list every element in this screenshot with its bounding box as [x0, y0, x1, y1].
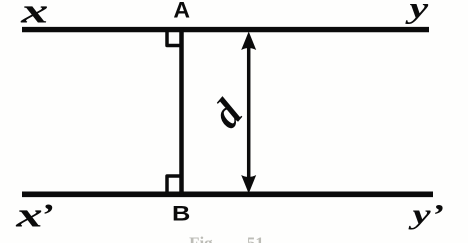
svg-text:y: y: [408, 198, 431, 230]
svg-text:51.: 51.: [247, 234, 268, 243]
svg-text:’: ’: [40, 197, 53, 231]
svg-text:Fig.: Fig.: [189, 234, 217, 243]
svg-text:d: d: [202, 91, 251, 137]
svg-text:x: x: [20, 0, 48, 30]
svg-text:B: B: [172, 201, 190, 225]
svg-text:’: ’: [431, 198, 444, 232]
line x'y' (bottom parallel line): [22, 191, 433, 197]
svg-text:A: A: [173, 0, 190, 22]
right angle mark at B: [167, 176, 182, 193]
segment AB (perpendicular between the lines): [179, 28, 184, 197]
right angle mark at A: [167, 31, 182, 46]
distance arrow d (double-headed, between the lines): [241, 32, 256, 194]
svg-text:x: x: [15, 195, 42, 234]
line xy (top parallel line): [22, 27, 429, 32]
svg-text:y: y: [405, 0, 429, 24]
